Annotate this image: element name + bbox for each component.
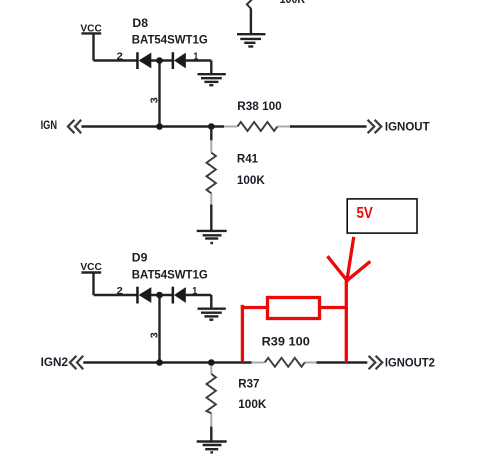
svg-text:R39 100: R39 100 <box>262 335 311 349</box>
svg-text:R37: R37 <box>238 376 259 390</box>
svg-text:3: 3 <box>148 332 160 338</box>
svg-text:5V: 5V <box>357 205 374 222</box>
svg-text:D9: D9 <box>132 250 148 264</box>
svg-text:IGNOUT: IGNOUT <box>385 120 430 134</box>
svg-text:IGN: IGN <box>41 118 58 132</box>
svg-text:100K: 100K <box>280 0 306 6</box>
svg-text:3: 3 <box>148 97 160 103</box>
svg-text:BAT54SWT1G: BAT54SWT1G <box>132 268 208 282</box>
svg-text:IGNOUT2: IGNOUT2 <box>385 356 435 370</box>
svg-text:VCC: VCC <box>80 261 102 273</box>
svg-text:R41: R41 <box>237 151 258 165</box>
svg-text:R38 100: R38 100 <box>237 99 282 113</box>
svg-text:2: 2 <box>117 52 124 63</box>
svg-text:D8: D8 <box>132 16 148 30</box>
svg-text:2: 2 <box>117 286 124 297</box>
svg-text:BAT54SWT1G: BAT54SWT1G <box>132 33 208 47</box>
svg-text:100K: 100K <box>238 397 266 411</box>
svg-text:IGN2: IGN2 <box>41 355 69 369</box>
svg-text:100K: 100K <box>237 173 265 187</box>
